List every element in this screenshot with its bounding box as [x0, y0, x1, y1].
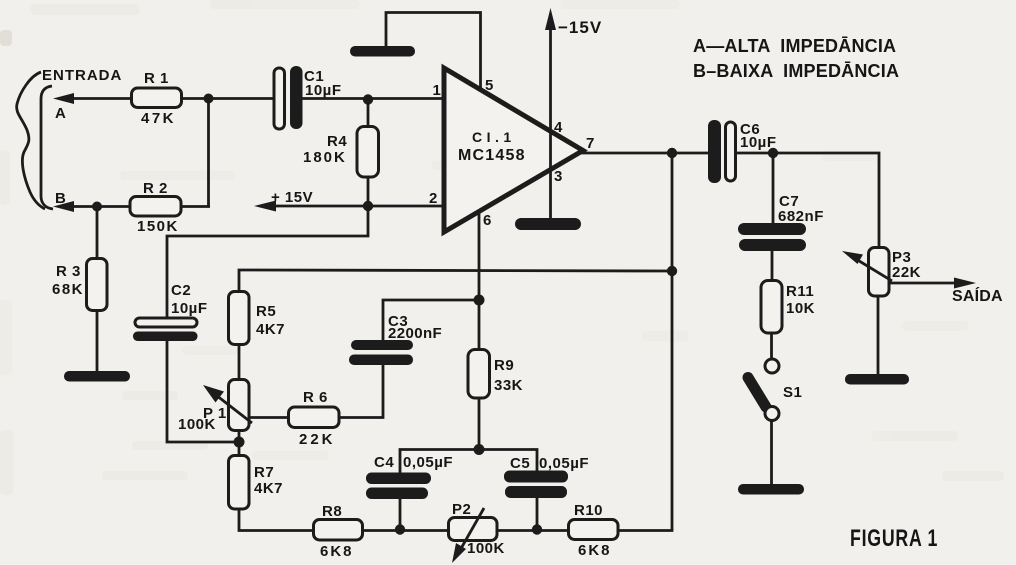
capacitor C1 (left plate, outlined) — [274, 68, 285, 129]
svg-text:B: B — [55, 190, 66, 207]
resistor R9 — [468, 350, 490, 399]
svg-text:SAÍDA: SAÍDA — [952, 286, 1003, 305]
P3 wiper arrow — [842, 251, 892, 281]
capacitor C7 (top plate) — [738, 223, 806, 235]
svg-text:MC1458: MC1458 — [458, 147, 526, 164]
wire B node down to R3 — [96, 207, 99, 260]
switch S1 lever — [748, 378, 766, 408]
SAIDA output arrow — [889, 278, 976, 289]
svg-text:4K7: 4K7 — [254, 480, 283, 497]
wire feedback rail to R5 — [239, 270, 672, 292]
svg-text:ENTRADA: ENTRADA — [42, 67, 122, 84]
svg-text:68K: 68K — [52, 281, 84, 298]
wire junction down to R4 — [367, 99, 370, 128]
svg-text:R 1: R 1 — [144, 70, 169, 87]
ground under P3 — [845, 374, 909, 385]
capacitor C1 (right plate, solid) — [290, 66, 303, 129]
capacitor C3 (bottom plate) — [349, 355, 413, 366]
svg-text:C5: C5 — [510, 455, 530, 472]
capacitor C5 (bottom plate) — [505, 486, 567, 498]
input bracket (inner) — [41, 86, 53, 209]
svg-text:4: 4 — [554, 119, 563, 136]
svg-text:P2: P2 — [452, 501, 471, 518]
svg-text:6K8: 6K8 — [320, 543, 354, 560]
svg-text:+ 15V: + 15V — [271, 189, 313, 206]
FIGURA 1 caption — [850, 526, 938, 552]
svg-text:4K7: 4K7 — [256, 321, 285, 338]
wire +15V node down and left to C2 — [167, 206, 368, 319]
wire R6 to C3 bottom — [339, 365, 383, 418]
P2 wiper arrow — [452, 508, 484, 563]
svg-text:22K: 22K — [892, 264, 921, 281]
capacitor C4 (bottom plate) — [366, 488, 428, 500]
svg-text:0,05µF: 0,05µF — [403, 454, 453, 471]
resistor R5 — [229, 292, 250, 345]
svg-text:10K: 10K — [786, 300, 815, 317]
wire junction down to R2 line — [207, 99, 210, 207]
node feedback junction — [667, 266, 677, 276]
resistor R2 — [130, 197, 181, 217]
resistor R8 — [314, 520, 363, 541]
svg-text:6K8: 6K8 — [578, 542, 612, 559]
P1 wiper arrow — [203, 385, 252, 423]
wire C7 to R11 — [771, 251, 774, 281]
svg-text:10µF: 10µF — [305, 82, 342, 99]
capacitor C2 (bottom plate, solid) — [133, 332, 198, 342]
resistor R1 — [132, 88, 182, 108]
switch S1 contact top — [765, 359, 779, 373]
node junction C6/C7 — [768, 148, 778, 158]
svg-text:6: 6 — [483, 212, 492, 229]
input brace (outer curly stroke) — [17, 72, 45, 209]
svg-text:S1: S1 — [783, 384, 802, 401]
wire C4 bottom to rail — [399, 499, 402, 531]
capacitor C2 (top plate, outlined) — [135, 318, 197, 327]
svg-text:R 6: R 6 — [303, 389, 328, 406]
svg-text:CI.1: CI.1 — [472, 129, 516, 145]
svg-text:C2: C2 — [171, 282, 191, 299]
potentiometer P3 — [869, 248, 890, 297]
svg-text:−15V: −15V — [558, 18, 602, 37]
svg-text:R 2: R 2 — [143, 180, 168, 197]
svg-text:150K: 150K — [137, 218, 179, 235]
svg-text:47K: 47K — [141, 110, 176, 127]
ground at pin 5 — [350, 46, 415, 57]
svg-text:33K: 33K — [494, 377, 523, 394]
svg-text:A: A — [55, 105, 66, 122]
svg-text:5: 5 — [485, 77, 494, 94]
svg-text:B–BAIXA IMPEDĀNCIA: B–BAIXA IMPEDĀNCIA — [693, 61, 899, 81]
wire C2 bottom to P1 bottom node — [167, 340, 239, 442]
wire R9 down to C4/C5 rail — [478, 398, 481, 450]
svg-text:0,05µF: 0,05µF — [539, 455, 589, 472]
svg-text:7: 7 — [586, 135, 595, 152]
svg-text:R8: R8 — [322, 503, 342, 520]
wire R1 to C1 — [182, 97, 275, 100]
potentiometer P2 — [449, 518, 498, 541]
node output junction — [667, 148, 677, 158]
wire S1 to ground — [770, 420, 773, 486]
node junction R1/R2 — [204, 94, 214, 104]
wire R7 down to bottom rail — [239, 509, 314, 531]
resistor R11 — [761, 281, 782, 334]
wire pin 6 down through to R9 — [478, 211, 481, 350]
wire C4/C5 top rail — [400, 450, 537, 474]
svg-text:R7: R7 — [254, 464, 274, 481]
ground under S1 — [738, 484, 804, 495]
node junction C3/R9 — [474, 295, 485, 306]
svg-text:2200nF: 2200nF — [388, 325, 442, 342]
wire output down to feedback rail — [671, 153, 674, 530]
capacitor C4 (top plate) — [366, 473, 431, 485]
svg-text:A—ALTA IMPEDĀNCIA: A—ALTA IMPEDĀNCIA — [693, 36, 896, 56]
wire R4 to +15V line — [367, 176, 370, 207]
ground under R3 — [64, 371, 130, 382]
resistor R6 — [289, 407, 340, 428]
capacitor C7 (bottom plate) — [739, 239, 806, 251]
svg-text:R10: R10 — [574, 502, 603, 519]
wire P2 to R10 — [497, 529, 569, 532]
resistor R7 — [229, 456, 250, 510]
wire R2 to corner — [181, 205, 210, 208]
node junction B/R3 — [92, 202, 102, 212]
wire C6 to P3 branch — [735, 153, 879, 248]
svg-text:100K: 100K — [178, 416, 216, 433]
resistor R3 — [87, 259, 108, 311]
node junction R9/C4/C5 — [474, 444, 485, 455]
svg-text:R 3: R 3 — [56, 263, 81, 280]
wire R8 to P2 — [362, 529, 449, 532]
wire P3 to ground — [877, 296, 880, 376]
svg-text:2: 2 — [429, 190, 438, 207]
svg-text:R4: R4 — [327, 133, 347, 150]
svg-text:R5: R5 — [256, 303, 276, 320]
wire C3 top to pin6 rail — [383, 300, 479, 341]
svg-text:682nF: 682nF — [778, 208, 824, 225]
capacitor C3 (top plate) — [351, 340, 413, 350]
wire P1 wiper to R6 — [249, 416, 289, 419]
svg-text:C4: C4 — [374, 454, 394, 471]
wire pin 5 up and over to ground — [386, 13, 481, 91]
svg-text:22K: 22K — [299, 431, 336, 448]
switch S1 contact bottom — [765, 407, 779, 421]
wire P1 to R7 — [238, 430, 241, 456]
wire C5 bottom to rail — [536, 498, 539, 531]
ground at pin 3 — [515, 218, 581, 230]
svg-text:3: 3 — [554, 168, 563, 185]
svg-text:180K: 180K — [303, 149, 347, 166]
svg-text:R9: R9 — [494, 357, 514, 374]
svg-text:1: 1 — [433, 82, 442, 99]
wire output pin 7 to C6 — [581, 152, 709, 155]
resistor R10 — [569, 520, 619, 540]
wire C1 to op-amp pin1 — [303, 97, 446, 100]
capacitor C6 (right plate, outlined) — [726, 122, 736, 181]
svg-text:10µF: 10µF — [171, 300, 208, 317]
svg-text:FIGURA 1: FIGURA 1 — [850, 526, 938, 552]
-15V supply arrow — [545, 8, 556, 218]
resistor R4 — [357, 127, 379, 178]
wire R11 to switch — [770, 333, 773, 360]
wire R5 to P1 — [238, 344, 241, 380]
capacitor C6 (left plate, solid) — [708, 120, 721, 183]
node junction +15V/R4 — [363, 201, 373, 211]
node junction pin1/R4 — [363, 94, 373, 104]
svg-text:R11: R11 — [786, 283, 814, 300]
node junction C4/rail — [395, 524, 405, 534]
wire R3 to ground — [96, 310, 99, 373]
capacitor C5 (top plate) — [504, 471, 568, 483]
wire junction down to C7 — [772, 153, 775, 224]
node junction P1/R7/C2 — [234, 437, 245, 448]
node junction C5/rail — [532, 524, 542, 534]
node A arrow — [53, 93, 131, 104]
op-amp U1 CI.1 MC1458 — [444, 68, 583, 232]
node B arrow — [53, 201, 130, 212]
+15V supply arrow — [254, 201, 445, 212]
wire R10 to output vertical — [618, 529, 673, 532]
potentiometer P1 — [229, 380, 250, 431]
svg-text:100K: 100K — [467, 540, 505, 557]
